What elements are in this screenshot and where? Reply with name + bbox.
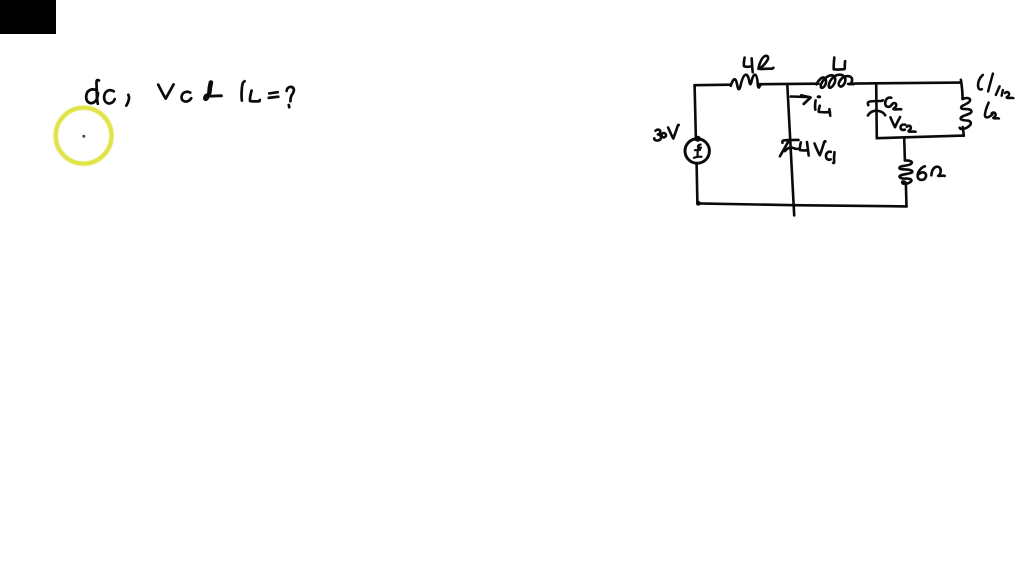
wire top-left horizontal: [695, 83, 731, 86]
label C2: [885, 98, 901, 110]
bottom wire: [697, 203, 906, 206]
cursor dot: [82, 135, 85, 138]
label iL2 top-right: [978, 74, 1013, 99]
rectangle bottom edge: [877, 136, 964, 139]
label L1: [834, 58, 845, 70]
label iL1: [815, 95, 830, 115]
left wire lower: [695, 163, 698, 203]
label 4ohm: [744, 56, 774, 72]
source junction blob: [695, 136, 701, 142]
source 30V circle: [685, 139, 709, 163]
dependent source 4Vc1 plates: [782, 140, 798, 143]
right rectangle: right side with inductor L2: [961, 80, 963, 99]
wire resistor to L1 (with tee at middle branch): [760, 82, 819, 85]
label 6ohm: [918, 166, 945, 180]
middle branch wire: [787, 84, 794, 215]
label L2: [985, 103, 999, 119]
wire rect-bottom to 6ohm resistor: [903, 139, 906, 161]
label 4Vc1: [800, 141, 835, 163]
yellow highlight circle: [56, 108, 112, 164]
arrow iL1: [791, 95, 810, 98]
capacitor C2 branch wire: [875, 83, 878, 138]
title text: dc , Vc & iL = ?: [86, 80, 294, 107]
resistor R1 4ohm zigzag: [731, 75, 761, 90]
capacitor C2 plates: [868, 100, 883, 105]
bottom-left corner blob: [696, 201, 701, 206]
left wire upper: [695, 85, 696, 139]
corner overlay (black logo cutout): [0, 0, 56, 34]
label Vc2: [890, 117, 915, 132]
inductor L1 coil: [817, 75, 854, 88]
source internals: [694, 145, 702, 158]
wire L1 to top-right corner: [854, 83, 962, 84]
label 30V: [654, 125, 679, 141]
resistor 6ohm vertical zigzag: [899, 160, 912, 184]
wire 6ohm to bottom: [905, 185, 908, 207]
